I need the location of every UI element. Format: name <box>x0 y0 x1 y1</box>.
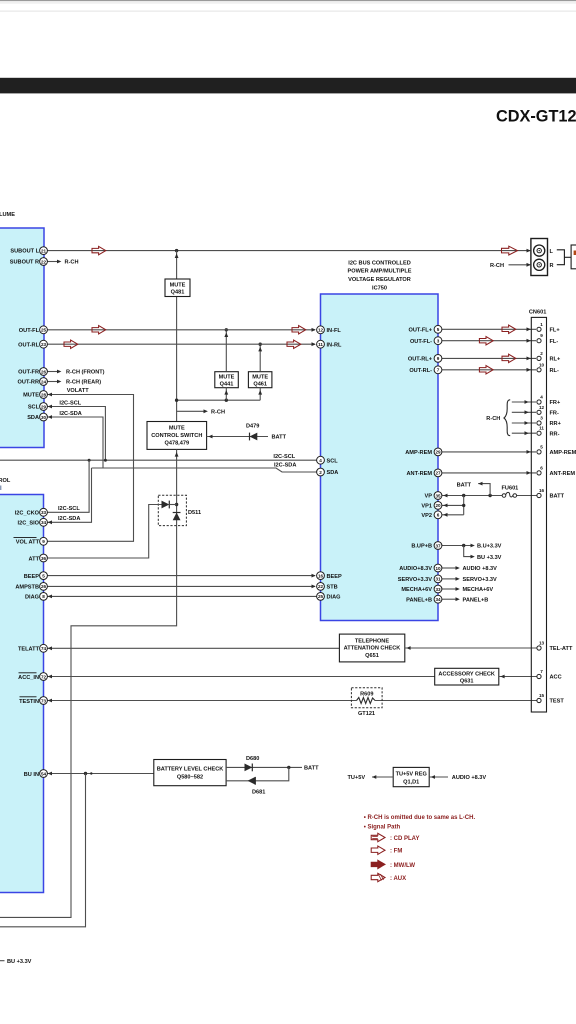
junction BU IN wire small <box>90 772 92 774</box>
connector pin 10 RL- <box>537 362 559 374</box>
svg-text:OUT-FL: OUT-FL <box>19 328 40 334</box>
op-amp/regulator IC750 body <box>321 294 439 621</box>
pin 23 OUT-RL <box>18 340 47 348</box>
svg-text:BU IN: BU IN <box>24 772 39 778</box>
svg-text:6: 6 <box>540 465 543 470</box>
pin 9 VOL ATT <box>14 537 48 545</box>
svg-text:RL+: RL+ <box>550 357 561 363</box>
wire ACC_IN to accessory check box <box>47 675 434 679</box>
pin 2 SDA <box>317 468 339 476</box>
junction Q441 at OUT-FL wire <box>225 328 228 331</box>
signal arrow on OUT-RL+ <box>502 354 516 362</box>
svg-text:MUTE: MUTE <box>23 393 39 399</box>
wire OUT-RL- to connector 10 <box>442 368 536 372</box>
pin 12 IN-FL <box>317 326 342 334</box>
wire TESTIN to connector TEST <box>47 699 537 703</box>
svg-text:TELEPHONE: TELEPHONE <box>355 638 389 644</box>
svg-text:MUTE: MUTE <box>252 375 268 381</box>
svg-text:R-CH: R-CH <box>490 263 504 269</box>
svg-text:VOL ATT: VOL ATT <box>16 540 40 546</box>
connector pin 11 RR- <box>537 426 560 438</box>
wire ATT pin to D511 <box>47 505 161 559</box>
pin 29 SCL <box>28 403 48 411</box>
wire VP2 <box>442 513 464 517</box>
svg-text:D479: D479 <box>246 423 259 429</box>
svg-text:: FM: : FM <box>390 849 402 855</box>
pin 4 SCL <box>317 456 339 464</box>
pin 27 ANT-REM <box>407 469 442 477</box>
arrowhead up Q461 bottom <box>258 390 262 395</box>
svg-text:13: 13 <box>539 641 545 646</box>
svg-text:GT121: GT121 <box>358 711 375 717</box>
svg-text:9: 9 <box>540 333 543 338</box>
svg-text:31: 31 <box>435 577 441 582</box>
wire telephone box to connector pin 13 <box>405 646 537 650</box>
svg-text:IN-RL: IN-RL <box>327 342 342 348</box>
svg-text:I2C-SDA: I2C-SDA <box>274 462 296 468</box>
svg-text:25: 25 <box>41 328 47 333</box>
svg-text:BATT: BATT <box>550 494 565 500</box>
svg-text:35: 35 <box>435 493 441 498</box>
svg-text:36: 36 <box>41 556 47 561</box>
wire OUT-FL+ to connector 1 <box>442 327 536 331</box>
wire OUT-FR stub <box>47 370 61 374</box>
wire BATT label branch <box>478 482 490 496</box>
svg-text:ROL: ROL <box>0 478 11 484</box>
connector pin 4 FR+ <box>537 395 561 407</box>
svg-text:SERVO+3.3V: SERVO+3.3V <box>398 577 433 583</box>
connector pin 16 BATT <box>537 488 565 500</box>
pin 26 OUT-FR <box>18 368 47 376</box>
connector pin 2 RL+ <box>537 351 561 363</box>
wire I2C-SDA rail to IC750 pin 2 <box>92 468 317 472</box>
svg-text:POWER AMP/MULTIPLE: POWER AMP/MULTIPLE <box>347 269 411 275</box>
svg-text:BU +3.3V: BU +3.3V <box>477 555 502 561</box>
transistor MUTE Q481 <box>165 279 190 297</box>
svg-text:SDA: SDA <box>327 470 339 476</box>
pin 54 BU IN <box>24 770 48 778</box>
svg-text:SDA: SDA <box>27 415 39 421</box>
connector pin 13 TEL-ATT <box>537 641 573 653</box>
svg-text:34: 34 <box>41 520 47 525</box>
svg-text:ATT: ATT <box>29 556 40 562</box>
svg-text:R-CH (FRONT): R-CH (FRONT) <box>66 370 105 376</box>
svg-text:FR+: FR+ <box>550 400 561 406</box>
svg-text:7: 7 <box>540 669 543 674</box>
svg-text:Q631: Q631 <box>460 679 474 685</box>
svg-text:R-CH: R-CH <box>211 409 225 415</box>
pin 5 OUT-FL+ <box>409 325 442 333</box>
svg-text:26: 26 <box>41 369 47 374</box>
svg-text:D511: D511 <box>188 510 201 516</box>
connector pin 12 FR- <box>537 405 559 417</box>
label fragment under ROL <box>0 486 1 491</box>
svg-text:BATT: BATT <box>272 435 287 441</box>
svg-text:4: 4 <box>319 458 322 463</box>
svg-text:MECHA+6V: MECHA+6V <box>463 587 494 593</box>
svg-text:ACC: ACC <box>550 675 562 681</box>
svg-text:12: 12 <box>318 328 324 333</box>
svg-text:MUTE: MUTE <box>170 282 186 288</box>
svg-text:I2C-SCL: I2C-SCL <box>273 454 295 460</box>
arrowhead up into SUBOUT wire <box>175 253 179 258</box>
pin 5 BEEP <box>24 572 48 580</box>
svg-text:BATTERY LEVEL CHECK: BATTERY LEVEL CHECK <box>157 766 224 772</box>
check ACCESSORY CHECK Q631 <box>435 668 499 685</box>
svg-text:D681: D681 <box>252 790 265 796</box>
svg-text:11: 11 <box>318 342 323 347</box>
svg-text:ACCESSORY CHECK: ACCESSORY CHECK <box>438 671 495 677</box>
legend arrow FM <box>371 846 402 855</box>
svg-text:AUDIO +8.3V: AUDIO +8.3V <box>463 566 498 572</box>
junction on SUBOUT L wire <box>175 249 178 252</box>
pin 9 OUT-RL+ <box>408 355 442 363</box>
diode D681 loop wire <box>226 767 289 780</box>
pin 37 B.UP+B <box>411 542 442 550</box>
wire TELATT to telephone check box <box>47 646 339 650</box>
wire VP1/VP2 riser <box>463 496 465 515</box>
svg-text:20: 20 <box>435 503 441 508</box>
RCA jack R <box>534 259 545 270</box>
pin 8 DIAG <box>25 593 47 601</box>
svg-text:SCL: SCL <box>327 458 339 464</box>
svg-text:24: 24 <box>41 379 47 384</box>
junction VP vertical <box>462 494 465 497</box>
pin 31 SERVO+3.3V <box>398 575 442 583</box>
svg-text:16: 16 <box>539 488 545 493</box>
svg-text:: MW/LW: : MW/LW <box>390 863 415 869</box>
svg-text:72: 72 <box>41 674 47 679</box>
wire brace to FR- <box>512 410 536 414</box>
wire Q441 vertical <box>225 330 227 400</box>
svg-text:AMP-REM: AMP-REM <box>550 450 576 456</box>
svg-text:SERVO+3.3V: SERVO+3.3V <box>463 577 498 583</box>
svg-text:BU +3.3V: BU +3.3V <box>7 959 32 965</box>
RCA jack box <box>531 239 548 276</box>
pin 24 OUT-RR <box>18 378 48 386</box>
wire AMP-REM to connector 5 <box>442 450 536 454</box>
wire BU IN to battery level check <box>47 772 153 776</box>
signal arrow on OUT-RL right <box>287 340 301 348</box>
svg-text:33: 33 <box>41 510 47 515</box>
transistor MUTE Q461 <box>248 372 272 388</box>
svg-text:9: 9 <box>437 356 440 361</box>
svg-text:2: 2 <box>319 470 322 475</box>
svg-text:CDX-GT121: CDX-GT121 <box>496 108 576 126</box>
wire TU+5V output <box>372 775 393 779</box>
signal arrow on OUT-FL- <box>479 337 493 345</box>
pin 10 AUDIO+8.3V <box>399 564 442 572</box>
svg-text:BATT: BATT <box>457 482 472 488</box>
svg-text:OUT-FL+: OUT-FL+ <box>409 328 433 334</box>
svg-text:BEEP: BEEP <box>24 574 40 580</box>
signal arrow on OUT-FL left <box>92 326 106 334</box>
svg-text:I2C-SDA: I2C-SDA <box>59 411 81 417</box>
svg-text:VOLTAGE REGULATOR: VOLTAGE REGULATOR <box>348 277 411 283</box>
wire SUBOUT R stub with arrow <box>47 260 61 264</box>
junction rail A at SCL vertical <box>104 459 107 462</box>
svg-text:Q461: Q461 <box>253 382 267 388</box>
svg-text:I2C-SCL: I2C-SCL <box>58 506 80 512</box>
wire AMPSTB to IC750 pin 22 <box>47 585 315 589</box>
svg-text:PANEL+B: PANEL+B <box>463 597 489 603</box>
svg-text:34: 34 <box>435 597 441 602</box>
pin 34 I2C_SIO <box>18 518 48 526</box>
arrowhead up Q441 bottom <box>224 390 228 395</box>
pin 16 BEEP <box>317 572 342 580</box>
svg-text:AMPSTB: AMPSTB <box>15 585 39 591</box>
signal arrow (FM) on SUBOUT L wire <box>92 246 106 254</box>
pin 34 PANEL+B <box>406 595 442 603</box>
pin 7 OUT-RL- <box>409 366 442 374</box>
switch MUTE CONTROL SWITCH Q478,479 <box>147 422 207 450</box>
arrowhead up Q461 top <box>258 347 262 352</box>
pin 28 MUTE <box>23 391 47 399</box>
svg-text:27: 27 <box>435 471 441 476</box>
svg-text:ATTENATION CHECK: ATTENATION CHECK <box>344 646 401 652</box>
signal arrow on OUT-RL left <box>64 340 78 348</box>
svg-text:FU601: FU601 <box>502 485 519 491</box>
regulator TU+5V REG Q1,D1 <box>393 767 429 786</box>
pin 26 AMPSTB <box>15 583 47 591</box>
wire I2C_CKO riser <box>47 460 89 512</box>
svg-text:I2C_SIO: I2C_SIO <box>18 521 40 527</box>
connector pin 6 ANT-REM <box>537 465 575 477</box>
svg-text:IC750: IC750 <box>372 285 387 291</box>
svg-text:I2C-SDA: I2C-SDA <box>58 516 80 522</box>
svg-text:2: 2 <box>540 351 543 356</box>
legend arrow CD PLAY <box>371 833 419 842</box>
wire SCL pin to rail <box>47 405 105 461</box>
svg-text:29: 29 <box>41 404 47 409</box>
legend arrow AUX <box>371 873 406 882</box>
svg-text:23: 23 <box>41 342 47 347</box>
svg-text:Q651: Q651 <box>365 653 379 659</box>
brace R-CH group <box>504 400 510 436</box>
svg-text:• R-CH is omitted due to same: • R-CH is omitted due to same as L-CH. <box>364 815 476 821</box>
junction D511 node <box>175 503 178 506</box>
svg-text:VOLUME: VOLUME <box>0 212 15 218</box>
svg-text:Q580~582: Q580~582 <box>177 775 203 781</box>
wire mute Q481 vertical <box>176 251 178 422</box>
svg-text:CN601: CN601 <box>529 309 546 315</box>
signal arrow (FM) on SUBOUT L wire near jack <box>502 246 518 255</box>
svg-text:RR+: RR+ <box>550 421 562 427</box>
diode D680 wire to BATT <box>226 766 302 768</box>
wire SERVO+3.3V out <box>442 577 460 581</box>
svg-text:: CD PLAY: : CD PLAY <box>390 836 419 842</box>
svg-text:B.UP+B: B.UP+B <box>411 544 432 550</box>
check TELEPHONE ATTENATION CHECK Q651 <box>339 634 404 662</box>
svg-text:11: 11 <box>539 426 544 431</box>
svg-text:DIAG: DIAG <box>327 595 341 601</box>
svg-text:OUT-RL: OUT-RL <box>18 342 39 348</box>
svg-text:22: 22 <box>41 259 47 264</box>
svg-text:26: 26 <box>41 584 47 589</box>
pin 21 SUBOUT L <box>10 247 47 255</box>
svg-text:3: 3 <box>437 339 440 344</box>
wire ANT-REM to connector 6 <box>442 471 536 475</box>
wire accessory box to connector pin 7 <box>499 675 537 679</box>
svg-text:• Signal Path: • Signal Path <box>364 825 401 831</box>
connector pin 15 TEST <box>537 693 564 705</box>
wire brace to RR- <box>512 431 536 435</box>
wire SDA pin down to rail B <box>47 415 103 468</box>
transistor MUTE Q441 <box>215 372 239 388</box>
connector pin 5 AMP-REM <box>537 444 576 456</box>
svg-text:6: 6 <box>437 513 440 518</box>
wire I2C-SCL rail to IC750 pin 4 <box>0 459 317 461</box>
svg-text:30: 30 <box>41 415 47 420</box>
pin 22 STB <box>317 583 338 591</box>
wire D511a to mute vertical <box>169 504 176 506</box>
svg-text:I2C-SCL: I2C-SCL <box>59 400 81 406</box>
svg-text:25: 25 <box>318 594 324 599</box>
wire BEEP to IC750 pin 16 <box>47 574 315 578</box>
wire AUDIO+8.3V into TU+5V REG <box>429 775 448 779</box>
svg-text:IN-FL: IN-FL <box>327 328 342 334</box>
svg-text:OUT-FR: OUT-FR <box>18 370 39 376</box>
wire VP to fuse to connector 16 <box>442 494 537 498</box>
pin 33 MECHA+6V <box>401 585 442 593</box>
pin 3 OUT-FL- <box>410 337 442 345</box>
svg-text:5: 5 <box>540 444 543 449</box>
node BU +3.3V bottom left <box>0 959 32 965</box>
svg-text:R: R <box>550 263 554 269</box>
wire brace to RR+ <box>512 421 536 425</box>
svg-text:10: 10 <box>435 566 441 571</box>
pin 11 IN-RL <box>317 340 342 348</box>
svg-text:5: 5 <box>42 573 45 578</box>
pin 6 VP2 <box>421 511 441 519</box>
svg-text:TU+5V REG: TU+5V REG <box>396 771 427 777</box>
svg-text:10: 10 <box>539 362 545 367</box>
svg-text:ACC_IN: ACC_IN <box>18 675 39 681</box>
diode D479 symbol <box>250 433 258 441</box>
svg-text:VOLATT: VOLATT <box>67 388 90 394</box>
diode D511a (right-pointing) <box>162 501 170 509</box>
wire R-CH tap on mute vertical <box>177 409 208 413</box>
arrowhead up Q441 top <box>224 332 228 337</box>
junction mute rail at Q441 <box>225 399 228 402</box>
fuse FU601 <box>502 492 516 497</box>
RCA jack L <box>534 245 545 256</box>
svg-text:ANT-REM: ANT-REM <box>407 471 433 477</box>
svg-text:D680: D680 <box>246 756 259 762</box>
junction VP/BATT branch <box>488 494 491 497</box>
signal arrow on OUT-FL right <box>292 326 306 334</box>
svg-text:TU+5V: TU+5V <box>348 775 366 781</box>
svg-text:74: 74 <box>41 646 47 651</box>
IC750 title <box>347 260 411 291</box>
svg-text:21: 21 <box>41 248 47 253</box>
wire B.UP+B branch <box>442 544 475 548</box>
svg-text:28: 28 <box>41 392 47 397</box>
svg-text:FR-: FR- <box>550 411 559 417</box>
block: electronic volume (cyan, cut at left) <box>0 228 44 448</box>
pin 30 SDA <box>27 413 47 421</box>
pin 25 OUT-FL <box>19 326 48 334</box>
svg-text:VP1: VP1 <box>421 504 432 510</box>
legend arrow MW/LW <box>371 860 415 869</box>
svg-text:RR-: RR- <box>550 431 560 437</box>
diode D681 symbol (left-pointing) <box>248 777 256 785</box>
svg-text:MECHA+6V: MECHA+6V <box>401 587 432 593</box>
svg-text:R-CH: R-CH <box>65 260 79 266</box>
wire R-CH to jack R <box>509 263 531 267</box>
svg-text:SUBOUT R: SUBOUT R <box>10 260 39 266</box>
svg-text:Q478,479: Q478,479 <box>165 440 190 446</box>
wire BU+3.3V branch <box>464 546 475 559</box>
wire SUBOUT L to RCA jack <box>47 250 530 252</box>
svg-text:ANT-REM: ANT-REM <box>550 471 576 477</box>
svg-text:OUT-RL+: OUT-RL+ <box>408 357 433 363</box>
svg-text:AUDIO+8.3V: AUDIO+8.3V <box>399 566 432 572</box>
svg-text:12: 12 <box>539 405 545 410</box>
pin 22 SUBOUT R <box>10 258 48 266</box>
svg-text:5: 5 <box>437 327 440 332</box>
svg-text:TESTIN: TESTIN <box>19 699 39 705</box>
svg-text:B.U+3.3V: B.U+3.3V <box>477 544 502 550</box>
wire I2C_SIO riser <box>47 468 91 524</box>
svg-text:R-CH: R-CH <box>486 416 500 422</box>
pin 74 TELATT <box>18 644 47 652</box>
svg-text:3: 3 <box>540 416 543 421</box>
check BATTERY LEVEL CHECK Q580-582 <box>154 760 226 786</box>
svg-text:AMP-REM: AMP-REM <box>405 450 432 456</box>
svg-text:SUBOUT L: SUBOUT L <box>10 249 39 255</box>
diode D511b (up-pointing on vertical) <box>173 513 181 521</box>
svg-text:DIAG: DIAG <box>25 595 39 601</box>
svg-text:MUTE: MUTE <box>219 375 235 381</box>
signal arrow on OUT-FL+ <box>502 325 516 333</box>
connector pin 1 FL+ <box>537 322 560 334</box>
header black bar <box>0 78 576 94</box>
svg-text:15: 15 <box>539 693 545 698</box>
pin 36 ATT <box>29 554 48 562</box>
pin 33 I2C_CKO <box>15 508 48 516</box>
junction Q461 at OUT-RL wire <box>259 343 262 346</box>
wire DIAG to IC750 pin 25 <box>47 595 316 599</box>
junction BATT node <box>287 766 290 769</box>
block: system control (cyan, cut at left) <box>0 495 44 893</box>
svg-text:L: L <box>550 249 554 255</box>
svg-text:Q1,D1: Q1,D1 <box>403 779 419 785</box>
connector pin 9 FL- <box>537 333 558 345</box>
svg-text:OUT-RR: OUT-RR <box>18 380 39 386</box>
wire brace to FR+ <box>512 400 536 404</box>
arrowhead up into switch bottom <box>175 452 179 457</box>
connector CN601 body <box>531 317 546 712</box>
wire OUT-RL+ to connector 2 <box>442 357 536 361</box>
svg-text:R-CH (REAR): R-CH (REAR) <box>66 380 101 386</box>
svg-text:Q481: Q481 <box>171 290 185 296</box>
svg-text:SCL: SCL <box>28 405 40 411</box>
svg-text:BEEP: BEEP <box>327 574 343 580</box>
svg-text:OUT-RL-: OUT-RL- <box>409 368 432 374</box>
svg-text:29: 29 <box>435 450 441 455</box>
arrowhead into jack L <box>527 249 531 253</box>
svg-text:22: 22 <box>318 584 324 589</box>
svg-text:I2C BUS CONTROLLED: I2C BUS CONTROLLED <box>348 260 410 266</box>
svg-text:Q441: Q441 <box>220 382 234 388</box>
svg-text:8: 8 <box>42 594 45 599</box>
top page edge line <box>0 0 576 1</box>
resistor R609 dashed box <box>351 688 382 708</box>
pin 73 TESTIN <box>19 697 47 705</box>
svg-text:37: 37 <box>435 543 441 548</box>
wire VOLATT net: MUTE pin to VOL ATT pin <box>47 393 133 542</box>
